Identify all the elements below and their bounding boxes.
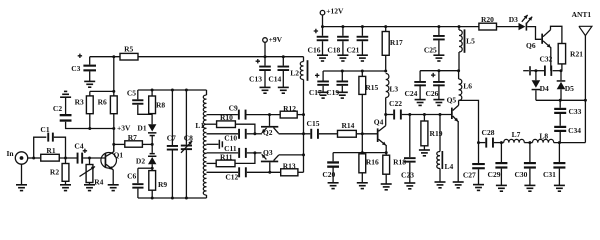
capacitor C6 (127, 168, 143, 188)
wire (529, 169, 531, 186)
svg-text:R6: R6 (98, 97, 107, 106)
resistor R10 (207, 113, 236, 127)
svg-text:D4: D4 (540, 84, 549, 93)
wire (402, 114, 451, 116)
ground (317, 55, 328, 61)
wire (113, 114, 115, 152)
wire (342, 41, 344, 55)
resistor R17 (382, 27, 403, 71)
node (384, 70, 387, 73)
svg-text:C7: C7 (167, 134, 176, 143)
svg-text:C25: C25 (424, 46, 437, 55)
wire (333, 152, 386, 154)
ground (337, 55, 348, 61)
svg-text:C16: C16 (308, 45, 321, 54)
wire (137, 189, 139, 198)
svg-text:D1: D1 (137, 124, 146, 133)
node (423, 113, 426, 116)
node (302, 113, 305, 116)
transistor Q5 (447, 96, 459, 122)
resistor R18 (383, 155, 407, 184)
node (151, 143, 154, 146)
node (264, 55, 267, 58)
node (171, 197, 174, 200)
capacitor C10 (224, 129, 246, 143)
node (560, 69, 563, 72)
ground (473, 185, 484, 191)
svg-text:R9: R9 (158, 180, 167, 189)
svg-text:C34: C34 (568, 126, 581, 135)
svg-text:C29: C29 (488, 170, 501, 179)
capacitor C23 (401, 115, 416, 180)
svg-text:C4: C4 (74, 142, 83, 151)
resistor R14 (338, 121, 357, 137)
capacitor C12 (225, 167, 246, 181)
LED D3 (509, 15, 532, 31)
wire (89, 183, 91, 185)
wire (113, 144, 115, 151)
resistor R3 (75, 91, 94, 128)
ground (318, 92, 329, 98)
wire (497, 26, 519, 28)
resistor R20 (479, 15, 497, 30)
capacitor C1 (40, 125, 53, 142)
node (559, 99, 562, 102)
resistor R12 (280, 104, 297, 118)
wire (554, 142, 586, 144)
input jack J1 (6, 149, 27, 164)
svg-text:Q1: Q1 (114, 150, 124, 159)
ground (554, 185, 565, 191)
svg-text:C28: C28 (482, 128, 495, 137)
wire (550, 47, 552, 70)
wire (207, 152, 239, 154)
svg-text:C13: C13 (249, 75, 262, 84)
node (458, 25, 461, 28)
ground (381, 184, 392, 190)
node (457, 69, 460, 72)
ground (84, 81, 95, 87)
wire +9V rail (90, 56, 121, 58)
wire (282, 71, 284, 87)
svg-text:R20: R20 (481, 15, 494, 24)
wire (559, 113, 561, 126)
wire (235, 124, 255, 134)
capacitor C20 (322, 153, 339, 179)
antenna ANT1 (572, 10, 592, 143)
wire (279, 133, 304, 135)
node (439, 113, 442, 116)
wire (264, 71, 266, 87)
svg-text:C30: C30 (514, 170, 527, 179)
svg-text:L7: L7 (512, 130, 521, 139)
svg-text:L3: L3 (389, 85, 398, 94)
wire (361, 41, 363, 55)
node (384, 25, 387, 28)
wire (89, 71, 91, 81)
capacitor C5 (127, 89, 144, 105)
svg-text:C6: C6 (127, 172, 136, 181)
svg-text:R21: R21 (570, 49, 583, 58)
svg-text:L8: L8 (539, 131, 548, 140)
svg-text:C9: C9 (229, 104, 238, 113)
resistor R19 (421, 115, 443, 151)
capacitor C34 (554, 126, 581, 135)
wire (83, 157, 105, 159)
ground (496, 185, 507, 191)
svg-text:C23: C23 (401, 170, 414, 179)
wire (151, 164, 153, 170)
transistor Q4 (374, 115, 386, 146)
ground (435, 182, 446, 188)
wire (247, 133, 262, 135)
capacitor C18 (327, 27, 348, 55)
ground (337, 92, 348, 98)
wire (341, 86, 343, 93)
wire (151, 114, 153, 125)
capacitor C19 (326, 71, 348, 97)
node (437, 25, 440, 28)
svg-text:C18: C18 (327, 45, 340, 54)
wire (558, 169, 560, 186)
ground (404, 183, 415, 189)
wire (207, 171, 239, 173)
resistor R8 (149, 90, 166, 114)
wire (34, 137, 47, 158)
node (282, 55, 285, 58)
wire (304, 133, 311, 135)
wire (438, 84, 440, 99)
svg-text:C2: C2 (53, 104, 62, 113)
node (361, 70, 364, 73)
node (302, 153, 305, 156)
wire (386, 114, 394, 116)
node (171, 89, 174, 92)
wire rail (420, 70, 459, 72)
capacitor C16 (308, 27, 329, 55)
svg-text:R15: R15 (365, 83, 378, 92)
varactor D1 (137, 124, 156, 137)
node (408, 113, 411, 116)
svg-text:L4: L4 (445, 162, 454, 171)
node (112, 143, 115, 146)
node (185, 89, 188, 92)
svg-text:Q2: Q2 (263, 128, 273, 137)
ground (453, 182, 464, 188)
wire (112, 170, 114, 185)
wire (361, 94, 363, 153)
svg-text:C5: C5 (127, 89, 136, 98)
ground (260, 87, 271, 93)
wire (207, 133, 239, 135)
node +3V (112, 124, 131, 133)
wire (138, 105, 152, 115)
svg-text:R17: R17 (390, 38, 403, 47)
node (268, 113, 271, 116)
ground (357, 183, 368, 189)
wire (322, 86, 324, 93)
wire +12V rail (323, 26, 480, 28)
wire (438, 40, 440, 55)
node (321, 25, 324, 28)
wire (457, 121, 459, 182)
wire (65, 97, 67, 114)
node (253, 132, 256, 135)
capacitor C32 (539, 55, 552, 76)
diode D5 (557, 71, 574, 101)
varactor D2 (136, 153, 156, 166)
capacitor C11 stub (207, 140, 237, 153)
transistor Q1 (101, 150, 123, 170)
svg-text:L2: L2 (290, 68, 299, 77)
capacitor C26 (425, 71, 444, 98)
svg-text:+12V: +12V (326, 6, 344, 15)
node (341, 25, 344, 28)
resistor R6 (98, 91, 118, 113)
ground (419, 150, 430, 156)
svg-text:C27: C27 (463, 171, 476, 180)
node (32, 157, 35, 160)
svg-text:+9V: +9V (269, 35, 283, 44)
wire (247, 114, 281, 116)
svg-text:C15: C15 (307, 119, 320, 128)
svg-text:ANT1: ANT1 (572, 10, 592, 19)
diode D4 (532, 71, 549, 101)
resistor R11 (207, 152, 236, 166)
ground (108, 185, 119, 191)
ground (433, 55, 444, 61)
svg-text:L6: L6 (463, 82, 472, 91)
capacitor C21 (346, 27, 368, 55)
node (151, 89, 154, 92)
ground (inverted) (60, 91, 71, 97)
svg-text:R3: R3 (75, 97, 84, 106)
transistor Q2 (261, 115, 279, 137)
wire (553, 70, 562, 72)
svg-text:C26: C26 (425, 89, 438, 98)
wire (247, 171, 281, 173)
inductor L6 (459, 71, 473, 101)
wire (409, 163, 411, 183)
ground (524, 185, 535, 191)
wire (500, 169, 502, 186)
svg-text:C12: C12 (225, 173, 238, 182)
svg-text:R16: R16 (366, 157, 379, 166)
inductor L7 (504, 130, 525, 143)
wire (151, 136, 153, 153)
resistor R21 (558, 44, 583, 71)
svg-text:D2: D2 (136, 157, 145, 166)
resistor R7 (114, 133, 152, 147)
resistor R15 (359, 71, 379, 94)
wire (419, 84, 421, 99)
svg-text:C31: C31 (543, 170, 556, 179)
resistor R16 (359, 154, 379, 183)
svg-text:C22: C22 (389, 99, 402, 108)
svg-text:R4: R4 (94, 178, 103, 187)
capacitor stub (523, 66, 531, 75)
node (302, 132, 305, 135)
terminal +9V (263, 35, 283, 57)
ground (60, 185, 71, 191)
wire (322, 41, 324, 55)
wire riser (113, 57, 115, 92)
node (253, 151, 256, 154)
svg-text:C3: C3 (71, 64, 80, 73)
node (584, 99, 587, 102)
wire (279, 154, 304, 156)
wire (21, 164, 23, 185)
capacitor C24 (404, 71, 425, 98)
svg-text:R10: R10 (220, 113, 233, 122)
inductor L8 (533, 131, 554, 142)
node (64, 157, 67, 160)
potentiometer R4 (80, 158, 104, 187)
ground (433, 100, 444, 106)
wire (559, 131, 561, 142)
node (528, 141, 531, 144)
inductor L4 (437, 115, 454, 183)
wire (536, 99, 586, 101)
wire +9V rail (138, 56, 304, 58)
node (534, 69, 537, 72)
capacitor C15 (307, 119, 320, 139)
wire (66, 122, 114, 129)
transistor Q3 (261, 148, 279, 172)
inductor L1 (195, 90, 206, 198)
capacitor C27 (463, 143, 485, 180)
wire (479, 142, 486, 144)
svg-text:+3V: +3V (117, 124, 131, 133)
ground (84, 185, 95, 191)
svg-text:C1: C1 (40, 125, 49, 134)
svg-text:C10: C10 (224, 134, 237, 143)
node (185, 197, 188, 200)
node (384, 113, 387, 116)
wire (478, 169, 480, 184)
capacitor C7 (167, 90, 178, 198)
svg-text:Q3: Q3 (263, 148, 273, 157)
ground (278, 87, 289, 93)
wire (28, 157, 40, 159)
wire (54, 137, 66, 158)
resistor R9 (149, 171, 168, 198)
svg-text:D5: D5 (565, 84, 574, 93)
wire rail (323, 70, 386, 72)
inductor L2 (290, 57, 308, 81)
svg-text:Q5: Q5 (447, 96, 457, 105)
wire (319, 133, 338, 135)
wire tank top rail (138, 89, 207, 91)
node (558, 141, 561, 144)
capacitor C9 (229, 104, 247, 120)
svg-text:R5: R5 (124, 44, 133, 53)
wire (459, 100, 479, 142)
node (500, 141, 503, 144)
resistor R1 (41, 146, 60, 161)
svg-text:R7: R7 (128, 133, 137, 142)
svg-text:R12: R12 (283, 104, 296, 113)
svg-text:R2: R2 (50, 168, 59, 177)
node (341, 70, 344, 73)
wire tank bottom rail (138, 197, 207, 199)
svg-text:Q6: Q6 (526, 41, 536, 50)
capacitor C13 (249, 57, 271, 84)
node (477, 141, 480, 144)
wire (494, 142, 504, 144)
wire (332, 167, 334, 183)
capacitor C30 (514, 143, 535, 179)
svg-text:C33: C33 (568, 107, 581, 116)
wire (138, 167, 152, 169)
terminal +12V (320, 6, 344, 26)
trimmer capacitor C8 (181, 90, 193, 198)
svg-text:L5: L5 (466, 36, 475, 45)
capacitor C22 (389, 99, 402, 120)
svg-text:C14: C14 (268, 75, 281, 84)
resistor R2 (50, 158, 69, 181)
capacitor C28 (482, 128, 495, 148)
node (437, 69, 440, 72)
svg-text:R13: R13 (283, 161, 296, 170)
wire (59, 157, 77, 159)
svg-text:C21: C21 (346, 46, 359, 55)
capacitor C14 (268, 57, 289, 84)
svg-text:C8: C8 (184, 134, 193, 143)
wire (531, 70, 545, 72)
svg-text:L1: L1 (195, 121, 204, 130)
svg-text:Q4: Q4 (374, 117, 384, 126)
wire (356, 133, 377, 135)
svg-text:R11: R11 (220, 152, 233, 161)
wire bus (303, 80, 305, 173)
svg-text:R1: R1 (46, 146, 55, 155)
wire (207, 114, 238, 116)
svg-text:R19: R19 (430, 129, 443, 138)
node (151, 197, 154, 200)
node (151, 167, 154, 170)
capacitor C31 (543, 143, 565, 179)
node (112, 55, 115, 58)
wire (527, 27, 541, 40)
node (112, 90, 115, 93)
ground (328, 183, 339, 189)
ground (415, 100, 426, 106)
wire (247, 152, 262, 154)
node (268, 171, 271, 174)
node (88, 127, 91, 130)
wire (90, 90, 114, 92)
node (361, 151, 364, 154)
ground (357, 55, 368, 61)
node (361, 132, 364, 135)
node (385, 151, 388, 154)
capacitor C17 (309, 71, 329, 97)
node (88, 157, 91, 160)
capacitor C2 (53, 104, 72, 122)
capacitor C3 (71, 54, 96, 74)
resistor R5 (120, 44, 138, 60)
inductor L3 (386, 74, 399, 115)
wire (235, 153, 255, 164)
wire (297, 114, 303, 116)
capacitor C29 (488, 143, 508, 179)
svg-text:C24: C24 (404, 89, 417, 98)
resistor R13 (281, 161, 298, 175)
capacitor C25 (424, 27, 445, 55)
node (361, 25, 364, 28)
capacitor C11 (238, 148, 247, 158)
